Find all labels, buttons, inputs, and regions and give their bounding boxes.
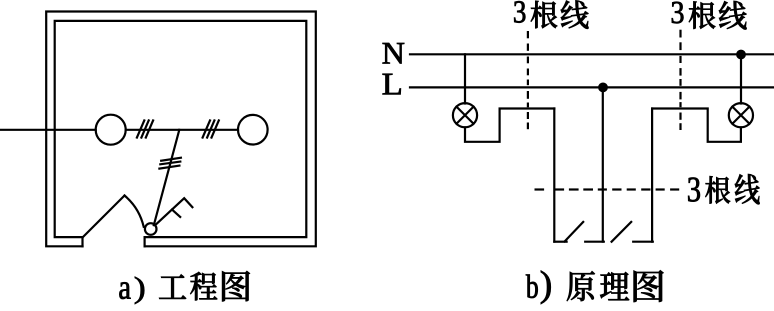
- wire right lamp to switch riser: [652, 109, 741, 142]
- switch lever tick: [172, 210, 180, 217]
- lamp EL1 (schematic): [453, 103, 477, 127]
- wall end cap left of door: [81, 237, 83, 246]
- dashed marker line bottom (3 wires): [535, 188, 680, 190]
- lamp EL2 (schematic): [729, 103, 753, 127]
- wire switch riser 2 (common from L): [602, 87, 604, 241]
- wire switch riser 1: [553, 109, 555, 242]
- wire right lamp branch from N: [740, 54, 742, 103]
- door leaf: [84, 196, 125, 237]
- node junction on L: [599, 84, 607, 92]
- node junction on N: [737, 51, 745, 59]
- wall end cap right of door: [144, 237, 146, 246]
- wire supply entry: [0, 129, 96, 131]
- label 3genxian bottom: [688, 174, 759, 204]
- switch SA2 blade: [612, 222, 632, 242]
- switch lever: [156, 198, 192, 224]
- switch common contact foot: [585, 241, 604, 243]
- lamp EL1 (plan): [96, 115, 126, 145]
- switch SA1 contact foot: [554, 241, 566, 243]
- switch S (plan symbol): [145, 223, 157, 235]
- wire N line: [410, 53, 774, 55]
- wire switch riser 3: [651, 109, 653, 242]
- wall inner outline: [55, 21, 307, 237]
- label 3genxian top-left: [514, 0, 588, 28]
- conductor count ticks 3-wire group 1: [137, 120, 153, 137]
- label N: [383, 43, 405, 64]
- wire lamp1 to lamp2: [126, 129, 238, 131]
- switch SA1 blade: [565, 222, 584, 242]
- conductor count ticks 3-wire group 3: [159, 158, 181, 169]
- switch SA2 contact foot: [633, 241, 653, 243]
- wire left lamp to switch riser: [465, 109, 554, 142]
- dashed marker line left (3 wires): [527, 31, 529, 129]
- wire left lamp branch from N: [464, 54, 466, 103]
- wire drop to switch: [154, 130, 180, 225]
- wire L line: [410, 86, 774, 88]
- conductor count ticks 3-wire group 2: [203, 120, 219, 137]
- label 3genxian top-right: [672, 1, 747, 29]
- lamp EL2 (plan): [238, 115, 268, 145]
- door swing arc: [125, 196, 144, 227]
- wall outer outline: [46, 12, 316, 247]
- caption b) yuanlitu: [526, 270, 664, 304]
- dashed marker line right (3 wires): [679, 30, 681, 130]
- label L: [383, 74, 401, 95]
- caption a) gongchengtu: [119, 271, 250, 304]
